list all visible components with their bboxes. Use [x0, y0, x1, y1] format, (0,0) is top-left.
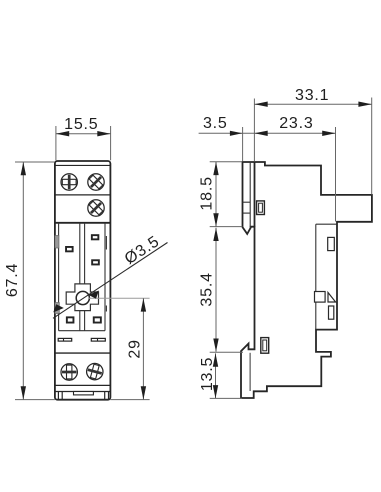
dimension 13.5 arrow top: [213, 353, 218, 366]
dimension 67.4 extension top: [15, 161, 55, 163]
dimension 33.1 arrow right: [358, 102, 371, 107]
flange tick 1: [57, 392, 59, 400]
dimension 13.5 extension top: [210, 351, 243, 353]
contact window R3: [94, 317, 101, 322]
side window W4: [329, 306, 334, 319]
dimension 15.5 extension left: [55, 126, 57, 160]
inner panel top line: [316, 223, 337, 225]
dimension 35.4 line: [215, 228, 217, 352]
svg-text:67.4: 67.4: [4, 263, 21, 297]
dimension 67.4 extension bottom: [15, 399, 55, 401]
leader line for hole diameter: [53, 243, 168, 319]
section line below top screws: [55, 194, 110, 196]
dimension 29 arrow top: [141, 298, 146, 311]
clip upper outer: [257, 201, 265, 215]
dimension 29 extension top: [89, 297, 150, 299]
dimension 67.4 arrow bottom: [21, 386, 26, 399]
tab tick lower: [243, 212, 251, 214]
svg-text:23.3: 23.3: [279, 115, 313, 132]
dimension 23.3 arrow right: [322, 131, 335, 136]
middle section inner bottom line: [59, 330, 105, 332]
dimension 18.5 extension bottom: [210, 226, 243, 228]
svg-text:29: 29: [126, 339, 143, 358]
dimension 67.4 arrow top: [21, 162, 26, 175]
gray tab lower on left edge: [55, 303, 59, 314]
clip lower inner: [263, 340, 267, 351]
gray tab upper on left edge: [55, 236, 59, 249]
dimension 33.1 arrow left: [254, 102, 267, 107]
screw S2: [84, 170, 107, 193]
tab tick upper: [243, 201, 251, 203]
side window W1: [328, 237, 335, 250]
inner panel vertical: [315, 224, 317, 329]
dimension 29 extension bottom: [110, 399, 149, 401]
center hole circle: [76, 291, 89, 304]
clip upper inner: [259, 203, 263, 212]
dimension 3.5 line: [199, 132, 255, 134]
dimension 33.1 extension left: [253, 99, 255, 162]
leader arrow upper: [88, 291, 99, 299]
leader arrow lower: [53, 304, 64, 312]
dimension 18.5 extension top: [210, 161, 242, 163]
front face upper segment: [254, 162, 256, 227]
middle section inner vertical left: [58, 223, 60, 331]
middle section center vertical b: [84, 223, 86, 331]
middle section inner vertical right: [104, 223, 106, 331]
svg-text:15.5: 15.5: [64, 116, 98, 133]
dimension 29 line: [142, 298, 144, 399]
screw S3: [84, 196, 107, 219]
dimension 18.5 arrow bottom: [213, 213, 218, 226]
dimension 29 arrow bottom: [141, 386, 146, 399]
dimension 13.5 line: [215, 353, 217, 398]
dimension 15.5 arrow right: [97, 131, 110, 136]
middle section center vertical a: [79, 223, 81, 331]
dimension 33.1 line: [254, 103, 371, 105]
dimension 18.5 line: [215, 162, 217, 227]
svg-text:18.5: 18.5: [198, 176, 215, 210]
bottom window pair right: [91, 338, 105, 341]
dimension 3.5 arrow: [230, 131, 243, 136]
contact window R2: [92, 260, 99, 264]
flange top line: [55, 384, 110, 386]
dimension 13.5 arrow bottom: [213, 385, 218, 398]
right edge slot upper: [105, 236, 107, 250]
front view body outline: [55, 161, 111, 400]
screw S5: [85, 362, 105, 382]
section line bottom of middle section: [55, 352, 110, 354]
svg-text:33.1: 33.1: [295, 87, 329, 104]
svg-text:35.4: 35.4: [199, 272, 216, 306]
dimension 35.4 arrow bottom: [213, 339, 218, 352]
screw S1: [61, 174, 77, 190]
dimension 15.5 arrow left: [56, 131, 69, 136]
dimension 15.5 extension right: [110, 126, 112, 160]
dimension 33.1 extension right: [371, 98, 373, 195]
section line top of middle section: [55, 222, 110, 224]
flange tick 4: [108, 392, 110, 400]
side window W3 triangle: [328, 293, 336, 303]
flange tick 3: [104, 392, 106, 400]
dimension 23.3 arrow left: [254, 131, 267, 136]
flange tick 2: [61, 392, 63, 400]
contact window L1: [66, 247, 73, 251]
tab inner vertical: [249, 162, 251, 228]
side view outline: [241, 162, 372, 398]
contact window L2: [67, 317, 74, 322]
foot inner vertical: [249, 353, 251, 391]
cross plus-shaped boss: [66, 284, 98, 311]
svg-text:3.5: 3.5: [203, 115, 228, 132]
side window W2 square: [315, 292, 326, 303]
clip lower outer: [261, 338, 269, 354]
dimension 23.3 line: [254, 132, 335, 134]
contact window R1: [92, 235, 99, 239]
dimension 15.5 line: [56, 133, 111, 135]
svg-text:13.5: 13.5: [199, 357, 216, 391]
dimension 23.3 extension right: [335, 127, 337, 222]
dimension 67.4 line: [22, 162, 24, 400]
dimension 3.5 extension left: [242, 127, 244, 161]
dimension 35.4 arrow top: [213, 228, 218, 241]
dimension 18.5 arrow top: [213, 162, 218, 175]
top band line: [55, 164, 110, 166]
screw S4: [61, 364, 77, 380]
right edge slot lower: [105, 306, 107, 312]
dimension 13.5 extension bottom: [210, 397, 242, 399]
bottom window pair left: [58, 338, 71, 341]
flange center notch: [74, 392, 94, 395]
flange inner line: [55, 391, 110, 393]
